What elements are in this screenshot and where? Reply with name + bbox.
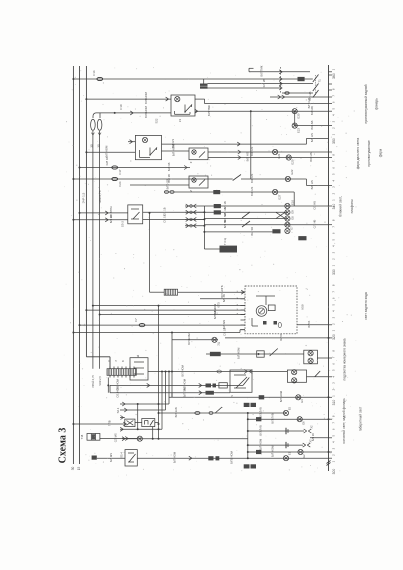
wire L5	[99, 131, 101, 369]
connector X instrument	[164, 289, 177, 295]
svg-text:15: 15	[77, 467, 81, 471]
ruler line	[328, 65, 330, 471]
connector pair lower	[244, 464, 256, 468]
svg-text:Б/Л ЛАБ: Б/Л ЛАБ	[182, 387, 186, 398]
label ЗРОА	[91, 375, 102, 388]
dashed link dip switch	[315, 75, 317, 95]
lamp E9	[285, 210, 295, 215]
wire to dip switch c	[208, 86, 283, 90]
wire drop a	[161, 372, 163, 430]
svg-text:Б/Л НОМ: Б/Л НОМ	[181, 364, 185, 376]
svg-text:Т О Ц: Т О Ц	[223, 238, 227, 245]
wire switch to lamp E22	[241, 174, 307, 183]
svg-text:Т18: Т18	[80, 434, 84, 439]
svg-text:Б/Г0 ЅЛ: Б/Г0 ЅЛ	[165, 179, 169, 189]
switch lever rows 1-2	[242, 212, 250, 218]
wire X to K59	[178, 285, 245, 298]
svg-text:фонарь: фонарь	[375, 98, 379, 110]
lamp E6	[297, 417, 305, 425]
wire to S5-2 upper	[79, 206, 128, 218]
connector T18	[80, 434, 100, 441]
label TOЦ	[223, 238, 227, 245]
wire E3 to track	[307, 376, 329, 378]
lamp unit rear fog	[304, 350, 318, 364]
svg-text:Е9: Е9	[291, 210, 295, 214]
lamp E21	[273, 149, 282, 158]
svg-text:Б/Л НОМ: Б/Л НОМ	[187, 333, 191, 345]
label противотуманный задний фонарь	[364, 84, 379, 123]
svg-text:С/1 2Б: С/1 2Б	[262, 79, 266, 88]
svg-text:Б/Л НОМ: Б/Л НОМ	[236, 347, 240, 359]
svg-text:S5.4: S5.4	[120, 452, 124, 458]
svg-text:ЗЧР 1,5: ЗЧР 1,5	[82, 192, 86, 203]
svg-text:Б/Л НЅ: Б/Л НЅ	[245, 152, 249, 161]
connector ЗБ	[92, 456, 97, 460]
svg-text:Б/Л НОМ: Б/Л НОМ	[271, 445, 275, 457]
fuse F17	[112, 166, 122, 175]
svg-text:360: 360	[332, 73, 336, 79]
label F10	[119, 104, 123, 110]
connector pins row 1	[185, 204, 204, 208]
svg-text:X: X	[107, 360, 111, 362]
svg-text:свет заднего хода: свет заднего хода	[364, 292, 368, 320]
hazard contact box	[142, 419, 155, 427]
wire rear fog to track	[317, 357, 328, 359]
K59 internal parts	[252, 318, 281, 328]
svg-text:Z1: Z1	[178, 118, 182, 122]
svg-text:Г ЛВ: Г ЛВ	[107, 420, 111, 426]
svg-text:Б/Л 1Б: Б/Л 1Б	[167, 162, 171, 171]
svg-text:Б/Л ТМК: Б/Л ТМК	[260, 65, 264, 76]
svg-text:300: 300	[332, 469, 336, 475]
title Схема 3	[58, 428, 69, 464]
wire row3	[204, 213, 287, 223]
wire into X box	[120, 416, 125, 420]
wire stub relay K2 in1	[128, 140, 135, 144]
svg-text:Б/Г ЗБ: Б/Г ЗБ	[222, 294, 226, 302]
wire Z2b lower input	[130, 179, 189, 189]
switch row 385	[243, 378, 249, 386]
wire dip out 1	[282, 92, 313, 95]
label 15	[77, 467, 81, 471]
label T1	[318, 79, 322, 83]
wire E22 to track	[307, 180, 329, 189]
unit box left	[130, 354, 148, 380]
svg-text:Б/Л Б: Б/Л Б	[279, 334, 283, 341]
label ЗЧР 1.5	[82, 192, 86, 203]
svg-text:Схема 3: Схема 3	[58, 428, 69, 464]
wire row 445 ground	[248, 438, 313, 450]
switch cluster S fog	[230, 370, 252, 397]
wire K1 to track 357	[205, 98, 329, 109]
switch hazard	[215, 407, 222, 413]
ruler end mark	[327, 461, 331, 466]
svg-text:фара дальнего света: фара дальнего света	[356, 138, 360, 170]
wire row5 to box	[204, 227, 272, 236]
wire vertical 247.8	[247, 413, 249, 458]
wire under K59 to track	[225, 334, 330, 341]
svg-text:Б/Л НОМ: Б/Л НОМ	[258, 438, 262, 450]
switch S5-2	[121, 205, 143, 227]
wire hazard vertical	[158, 404, 160, 440]
wire to dip switch a	[249, 65, 310, 76]
svg-text:310: 310	[332, 400, 336, 406]
fuse F14	[97, 77, 103, 80]
label S2.1	[116, 407, 120, 413]
svg-text:противотуманные: противотуманные	[367, 140, 371, 167]
K59 gauge	[256, 306, 267, 317]
svg-text:фары: фары	[379, 148, 383, 157]
wire row 397 to track	[169, 390, 330, 402]
wire fuse loop to relay K1	[93, 105, 171, 118]
svg-text:Б/Л НЅ: Б/Л НЅ	[310, 180, 314, 189]
svg-text:основной свет; задний фонарь: основной свет; задний фонарь	[342, 398, 346, 444]
svg-text:F7: F7	[134, 318, 138, 322]
dashed connector line X1	[280, 67, 282, 94]
wire vertical feed 158	[158, 306, 160, 404]
wire Z2a out to lamp E21	[208, 147, 329, 156]
svg-text:Е27: Е27	[278, 194, 282, 199]
switch S dip 2	[313, 84, 319, 92]
lamp E7	[285, 226, 294, 234]
ground row 431	[286, 428, 288, 434]
wire row4 to track	[204, 219, 328, 228]
svg-text:Б/Л НЅ: Б/Л НЅ	[309, 152, 313, 161]
svg-text:Е23: Е23	[297, 128, 301, 133]
switch S dip 3	[313, 90, 319, 98]
svg-text:Б/Л Б: Б/Л Б	[307, 320, 311, 327]
wire relay K1 out top	[195, 99, 205, 104]
lamp E10	[285, 200, 295, 209]
wire hazard row 429	[120, 427, 162, 431]
wire drop b	[165, 372, 167, 411]
wire connector down	[107, 378, 109, 393]
wire fuse F24 row to switch	[72, 174, 232, 183]
fuse F10a	[91, 119, 96, 130]
wire Z2a out2 to lamp E20	[208, 152, 329, 161]
connector pins row 3	[185, 217, 204, 221]
wire L4 to K59	[92, 302, 245, 308]
svg-text:Б/Л 1АБ: Б/Л 1АБ	[174, 407, 178, 417]
wire from bus 30 to headlamp switch	[72, 70, 312, 83]
K59 pin stubs	[241, 292, 246, 330]
svg-text:Б/Л ЅБ: Б/Л ЅБ	[250, 227, 254, 236]
wire row 431 ground	[248, 425, 314, 436]
svg-text:плафоны: плафоны	[350, 199, 354, 214]
switch S dip 1	[313, 75, 319, 83]
ruler sub digits	[331, 68, 335, 462]
connector box lower	[272, 229, 280, 233]
lamp E7a	[285, 222, 290, 227]
svg-text:Б/Л НЅ: Б/Л НЅ	[310, 133, 314, 142]
wire relay K2 out2 to switch Z2a	[162, 144, 190, 156]
wire K1 out 2 to lamps	[195, 105, 329, 116]
svg-text:С/1 1Б: С/1 1Б	[163, 207, 167, 215]
svg-text:Б/Л ЛАБ: Б/Л ЛАБ	[258, 407, 262, 418]
svg-text:Т1: Т1	[318, 79, 322, 83]
label ближний свет	[339, 196, 355, 217]
svg-text:Б/Л НЅ: Б/Л НЅ	[250, 174, 254, 183]
lamp E5	[283, 406, 291, 415]
lamp E4	[296, 395, 304, 403]
svg-text:ЧОК 2,5: ЧОК 2,5	[98, 376, 102, 386]
svg-text:С/2 МЅ: С/2 МЅ	[114, 433, 118, 442]
wire ЗБ to S5.4	[97, 453, 125, 462]
svg-text:Б/Л ЛАБ: Б/Л ЛАБ	[271, 413, 275, 424]
switch on E3 track	[315, 371, 321, 377]
svg-text:Б/Л НОМ: Б/Л НОМ	[144, 105, 148, 117]
svg-text:S: S	[230, 395, 234, 397]
svg-text:ближний свет,: ближний свет,	[339, 196, 343, 217]
terminal 56 corner mark	[249, 68, 254, 72]
svg-text:Б/Л ЛАБ: Б/Л ЛАБ	[258, 425, 262, 436]
label габаритный свет	[358, 406, 362, 431]
svg-text:320: 320	[332, 334, 336, 340]
svg-text:F17: F17	[118, 169, 122, 174]
svg-text:Б/ГБ НОМ: Б/ГБ НОМ	[230, 450, 234, 464]
lamp E20	[286, 155, 294, 165]
wire row1 to lamps	[204, 201, 328, 210]
svg-text:Б/Л НОМ: Б/Л НОМ	[144, 91, 148, 103]
switch fog	[270, 349, 278, 357]
relay K1	[171, 95, 195, 122]
ruler ticks	[329, 72, 333, 458]
svg-text:ЗРОА 0,75: ЗРОА 0,75	[91, 375, 95, 388]
fuse F10b	[97, 119, 102, 130]
wire to lamp unit E3	[148, 364, 287, 376]
switch unit Z2b	[189, 176, 208, 192]
wire K59 pin2	[200, 294, 245, 302]
wire hazard row 410	[120, 408, 166, 412]
crossover wires X	[276, 212, 285, 218]
label фары	[356, 138, 383, 170]
svg-text:Б/Л НЅ: Б/Л НЅ	[250, 147, 254, 156]
switch S on E22 row	[233, 175, 241, 181]
wire X box to contact box	[135, 422, 159, 424]
svg-text:S22: S22	[155, 118, 159, 123]
svg-text:Е4: Е4	[300, 399, 304, 403]
wire lamp E23 to track	[295, 120, 329, 129]
svg-text:Е20: Е20	[291, 159, 295, 164]
svg-text:С/1 НБ: С/1 НБ	[313, 201, 317, 210]
wire bus30 to hazard	[72, 420, 126, 426]
wire row 385	[110, 378, 243, 390]
wire connector to K59 pin1	[150, 291, 165, 293]
svg-text:С/1 1Б: С/1 1Б	[163, 214, 167, 222]
wire S5-2 out lower	[143, 214, 205, 222]
wire row2	[204, 207, 287, 215]
lamp unit E3	[287, 370, 306, 383]
svg-text:Б/Л НОМ: Б/Л НОМ	[173, 451, 177, 463]
wire junction S5-2 down	[149, 212, 151, 292]
label ЧОК 0.75	[98, 190, 102, 203]
wire fuse F17 row	[79, 156, 191, 171]
svg-text:ЗЦ: ЗЦ	[217, 342, 221, 346]
wire bus 30 (line L1)	[72, 66, 74, 464]
wire bus30 to K59 low	[72, 327, 245, 335]
svg-text:Е8: Е8	[291, 216, 295, 220]
svg-text:Б/Л АБ: Б/Л АБ	[310, 106, 314, 115]
svg-text:Б/Л НЅ: Б/Л НЅ	[250, 187, 254, 196]
wire row 452 to track	[248, 445, 330, 457]
lamp E8	[285, 216, 295, 221]
svg-text:Б/Л МЅ: Б/Л МЅ	[109, 453, 113, 462]
wire to dip switch b	[208, 79, 314, 88]
relay K59 box	[245, 286, 304, 334]
wire F7 to K59	[79, 320, 246, 329]
connector X pair	[200, 84, 208, 89]
lamp E27	[273, 189, 282, 199]
label основной свет	[342, 398, 346, 444]
svg-text:350: 350	[332, 138, 336, 144]
svg-text:Е30: Е30	[297, 113, 301, 118]
switch unit Z2a	[189, 148, 208, 163]
wire L5 to K59	[99, 308, 245, 319]
svg-text:К59: К59	[300, 304, 304, 309]
svg-text:330: 330	[332, 269, 336, 275]
wire bus 30 to S5-2 lower	[72, 215, 127, 224]
svg-text:F10: F10	[119, 104, 123, 110]
switch lever rows 3-4	[242, 221, 250, 227]
svg-text:30: 30	[89, 144, 93, 148]
wire vertical feed lamps	[171, 333, 173, 398]
svg-text:F14: F14	[92, 70, 96, 76]
lamp E22	[285, 169, 294, 182]
wire L3 to K59	[85, 303, 245, 315]
svg-text:ЧОК 0,75: ЧОК 0,75	[98, 190, 102, 203]
svg-text:подсветка номерного знака: подсветка номерного знака	[343, 338, 347, 380]
svg-text:Е10: Е10	[291, 200, 295, 205]
wire hazard v2	[152, 427, 154, 439]
svg-text:F24: F24	[118, 181, 122, 186]
switch S5.4	[120, 450, 138, 466]
connector strip ЧВГО	[204, 246, 237, 253]
svg-text:Б/Л НОМ: Б/Л НОМ	[279, 390, 283, 402]
wire row 419 to track	[248, 413, 330, 424]
labels above connector	[107, 360, 125, 362]
wire relay K2 out1	[162, 133, 329, 148]
wire lamp E27 row	[164, 187, 294, 196]
connector pins row 2	[185, 210, 204, 214]
K59 internal box	[256, 296, 275, 311]
wire S5-2 out upper	[143, 207, 205, 215]
fuse F24	[112, 177, 122, 186]
wire row 437 stub	[310, 433, 329, 441]
wire K59 out to track	[297, 320, 329, 327]
svg-text:Е22: Е22	[290, 169, 294, 174]
svg-text:S2.1: S2.1	[116, 407, 120, 413]
svg-text:противотуманный задний: противотуманный задний	[364, 84, 368, 123]
wire S5.4 out row	[137, 450, 328, 464]
wire hazard bottom	[122, 437, 248, 441]
wire L4	[92, 131, 94, 369]
wire hazard fuse row	[159, 407, 287, 418]
wire row 392	[110, 386, 230, 398]
svg-text:габаритный свет: габаритный свет	[358, 406, 362, 431]
connector pair upper	[244, 403, 256, 407]
wire bus L3 to relay K2	[85, 145, 135, 157]
label свет заднего хода	[364, 292, 368, 320]
K59 pin labels	[237, 290, 239, 314]
svg-text:S5-2: S5-2	[121, 221, 125, 227]
wire ladder vertical	[203, 206, 205, 249]
svg-text:С/Л 1Б: С/Л 1Б	[105, 156, 109, 165]
svg-text:Б/Л НОМ: Б/Л НОМ	[172, 144, 176, 156]
wire T18 to lamp	[100, 433, 137, 442]
wire dip out 2	[270, 91, 329, 100]
wire bus L3 to relay K1 coil	[85, 91, 171, 103]
lamp hazard tell	[137, 436, 142, 441]
wire hazard v1	[137, 404, 139, 429]
svg-text:Е7: Е7	[290, 226, 294, 230]
connector strip instrument	[107, 367, 136, 378]
connector box right	[298, 236, 306, 240]
svg-text:30: 30	[71, 467, 75, 471]
wire junction down to E22 row	[250, 111, 252, 179]
wire bus 15 (line L2)	[79, 66, 81, 464]
wire lamp podsvetka	[172, 333, 218, 345]
wire bracket rows 385-392	[109, 385, 111, 392]
svg-text:Б/Л 1Б: Б/Л 1Б	[109, 215, 113, 224]
svg-text:Е6: Е6	[301, 421, 305, 425]
svg-text:С/1 1Б: С/1 1Б	[222, 327, 226, 335]
lamp E1	[283, 451, 291, 460]
svg-text:Б/Л МЅ: Б/Л МЅ	[222, 320, 226, 329]
wire bus line L3	[86, 66, 110, 369]
fuse F7	[134, 318, 145, 327]
lamp E30	[292, 109, 300, 119]
svg-text:Е5: Е5	[288, 406, 292, 410]
svg-text:Б/Л АБ: Б/Л АБ	[310, 120, 314, 129]
lamp podsvetka	[212, 337, 221, 346]
wire hazard row 404	[120, 402, 169, 406]
ground row 445	[286, 442, 288, 448]
svg-text:С/1 НОМ: С/1 НОМ	[115, 386, 119, 398]
paper noise	[64, 67, 357, 476]
wire E27 to lamp column	[293, 192, 295, 206]
relay K2	[135, 118, 161, 160]
svg-text:С/1 НБ: С/1 НБ	[313, 219, 317, 228]
svg-text:Б: Б	[121, 360, 125, 362]
label подсветка номерного знака	[343, 338, 347, 380]
svg-text:Б/Л ЅМК: Б/Л ЅМК	[213, 308, 217, 319]
wire drop c	[168, 372, 170, 405]
svg-text:Б/Л ЅБ: Б/Л ЅБ	[223, 219, 227, 228]
label 30	[71, 467, 75, 471]
lamp E23	[292, 123, 300, 133]
svg-text:Б/Л НОМ: Б/Л НОМ	[104, 145, 108, 157]
wire fog rear row	[206, 347, 304, 359]
svg-text:Б/Л ТМК: Б/Л ТМК	[207, 105, 211, 116]
lamp E2	[298, 449, 306, 457]
wire lamp link	[294, 111, 296, 125]
label 30 30	[89, 133, 101, 148]
svg-text:Е2: Е2	[302, 454, 306, 458]
connector pins row 4	[185, 224, 204, 228]
svg-text:30: 30	[96, 144, 100, 148]
hazard switch X box	[125, 419, 135, 427]
wire E22 link down	[306, 179, 308, 186]
ruler numbers	[332, 73, 336, 474]
svg-text:340: 340	[332, 204, 336, 210]
